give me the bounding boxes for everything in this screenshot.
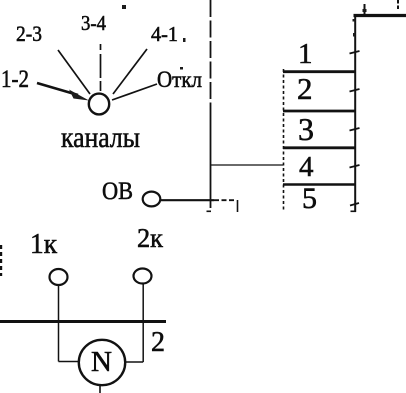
wire 2к to motor (126, 361, 143, 363)
wire from ОВ (160, 199, 214, 201)
terminal block left edge (dashed) (283, 69, 285, 212)
left edge dashed (0, 245, 2, 276)
terminal line 4/5 (283, 183, 355, 186)
svg-text:3-4: 3-4 (81, 11, 106, 35)
terminal circle 1к (50, 269, 68, 285)
svg-text:каналы: каналы (61, 121, 140, 154)
wire to terminal 4 (211, 164, 283, 166)
speck comma after 4-1 (183, 38, 186, 42)
bus nub 2 (353, 33, 356, 37)
svg-text:1: 1 (298, 38, 313, 70)
svg-text:2к: 2к (137, 223, 164, 253)
bus corner nub (353, 19, 356, 22)
svg-text:ОВ: ОВ (102, 178, 133, 205)
stub above bar right (dashed) (397, 0, 399, 11)
motor bottom stub (99, 385, 101, 393)
svg-text:Откл: Откл (157, 67, 202, 92)
switch position line Откл (112, 84, 157, 100)
switch knob circle (89, 94, 109, 115)
svg-text:N: N (91, 346, 112, 378)
bus tick 1 (350, 51, 360, 54)
svg-text:2: 2 (297, 71, 313, 106)
terminal circle 2к (134, 269, 152, 284)
bus tick 4 (350, 165, 360, 168)
bus tick 3 (350, 128, 360, 131)
switch wiper arrow to 1-2 (37, 83, 89, 101)
svg-text:4-1: 4-1 (151, 22, 178, 46)
panel bottom line (thick) (0, 320, 166, 323)
svg-text:1к: 1к (30, 229, 57, 260)
terminal line 1/2 (283, 70, 355, 73)
svg-text:1-2: 1-2 (1, 66, 29, 93)
bus tick 2 (350, 89, 360, 92)
wire from 2к down (142, 284, 144, 363)
bus tick 5 (350, 203, 359, 206)
svg-text:4: 4 (299, 151, 314, 183)
stub above bar left (364, 4, 366, 14)
motor circle N (79, 340, 125, 385)
wire from ОВ dashed part (214, 199, 236, 201)
vertical wire panel edge (solid bottom) (210, 104, 212, 208)
wire corner down (237, 200, 239, 212)
wire 1к to motor (59, 361, 80, 363)
bus bottom foot (351, 210, 357, 212)
vertical wire panel edge (dashed top) (210, 0, 212, 104)
switch position line 3-4 (dashed) (100, 44, 102, 91)
speck top (122, 5, 126, 9)
svg-text:2: 2 (151, 327, 165, 358)
svg-text:5: 5 (302, 182, 317, 215)
wire from 1к down (58, 285, 60, 362)
switch position line 2-3 (58, 50, 90, 94)
switch position line 4-1 (113, 49, 147, 94)
svg-text:3: 3 (298, 111, 314, 147)
terminal line 2/3 (283, 110, 355, 113)
terminal line 3/4 (283, 146, 355, 149)
ОВ terminal circle (143, 192, 161, 207)
stub blob (363, 9, 367, 12)
top bar (thick) (354, 14, 406, 17)
bus vertical line (354, 16, 356, 212)
svg-text:2-3: 2-3 (16, 21, 42, 46)
panel edge bottom foot (207, 210, 212, 212)
speck above Откл (180, 67, 183, 70)
